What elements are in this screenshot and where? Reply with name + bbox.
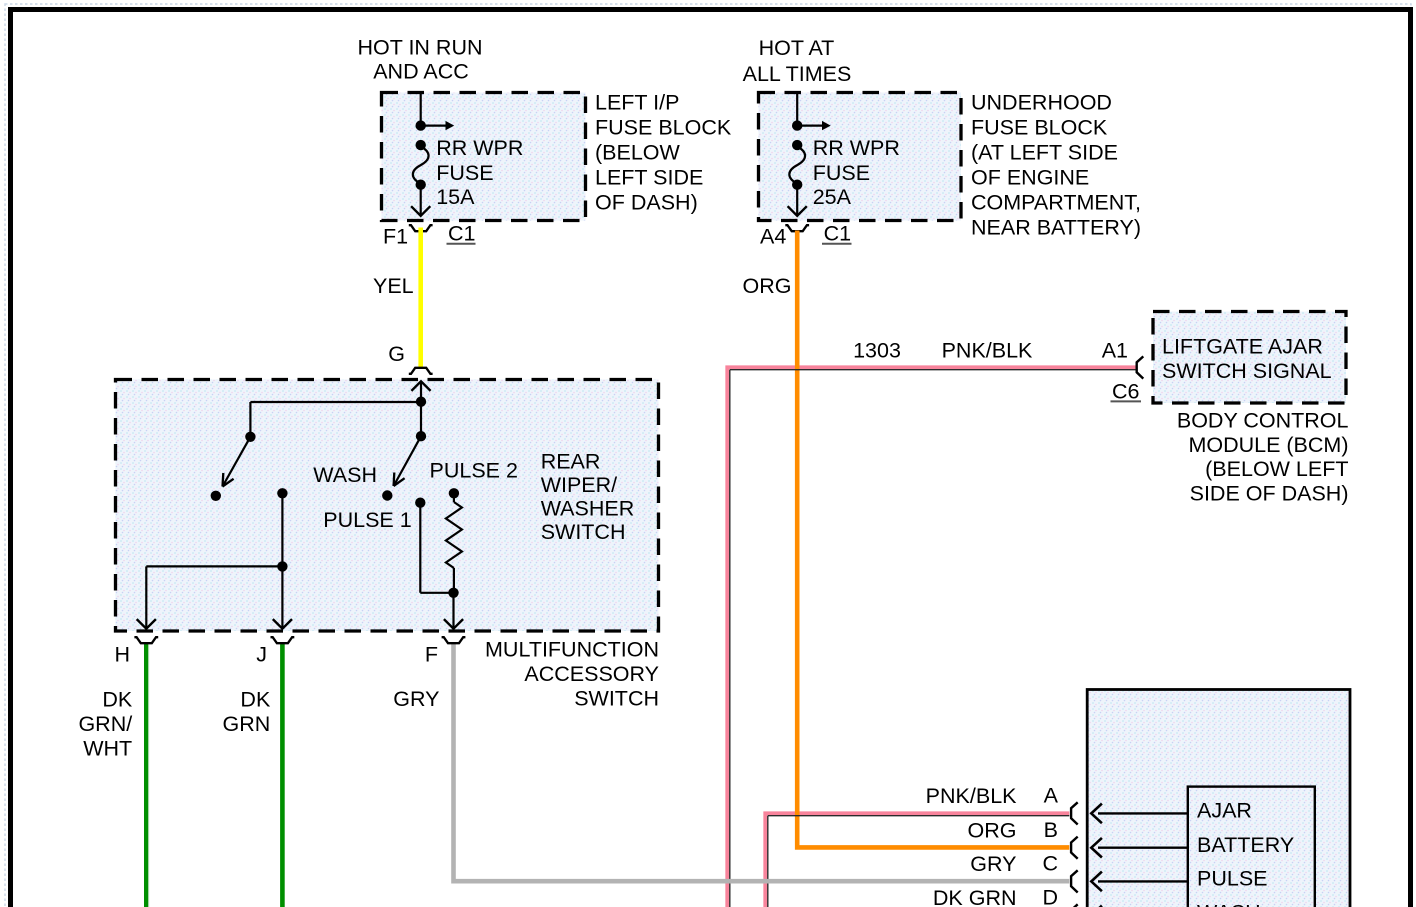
svg-text:FUSE BLOCK: FUSE BLOCK <box>971 116 1108 140</box>
svg-text:GRN: GRN <box>223 712 271 736</box>
svg-text:SWITCH: SWITCH <box>541 520 626 544</box>
svg-text:(AT LEFT SIDE: (AT LEFT SIDE <box>971 141 1118 165</box>
module input arrow WASH <box>1091 906 1188 907</box>
pin H label <box>114 643 130 667</box>
wire PNK/BLK pin A - black stripe <box>768 816 1070 907</box>
pin G label <box>388 342 405 366</box>
svg-text:SIDE OF DASH): SIDE OF DASH) <box>1190 481 1349 505</box>
svg-text:SWITCH: SWITCH <box>574 687 659 711</box>
fuse A4 RR WPR 25A symbol <box>788 94 831 216</box>
wire label GRY <box>393 687 439 711</box>
svg-text:ORG: ORG <box>968 818 1017 842</box>
label PULSE 1 <box>323 508 411 532</box>
svg-text:FUSE: FUSE <box>436 161 493 185</box>
wire PNK/BLK circuit 1303 (BCM A1 down) - pink band <box>727 367 1135 907</box>
rear wiper/washer switch box <box>116 380 659 632</box>
svg-text:GRY: GRY <box>393 687 439 711</box>
svg-text:GRY: GRY <box>970 852 1016 876</box>
svg-text:AJAR: AJAR <box>1197 799 1252 823</box>
svg-text:1303: 1303 <box>853 339 901 363</box>
connector C6 label <box>1111 380 1142 404</box>
label BODY CONTROL MODULE (BCM) (BELOW LEFT SIDE OF DASH) <box>1177 409 1349 506</box>
connector cup at switch pin F <box>442 637 466 643</box>
left switch arm (off position) <box>223 432 256 487</box>
svg-text:YEL: YEL <box>373 274 414 298</box>
wire DK GRN/WHT (switch pin H down) <box>146 644 149 907</box>
wire label 1303 <box>853 339 901 363</box>
svg-text:WASH: WASH <box>313 463 377 487</box>
svg-text:OF DASH): OF DASH) <box>595 191 698 215</box>
svg-text:C1: C1 <box>824 222 851 246</box>
module input arrow BATTERY <box>1091 838 1188 858</box>
wire label ORG <box>743 274 792 298</box>
wire junction to pin H <box>137 566 283 628</box>
svg-text:DK GRN: DK GRN <box>933 886 1017 907</box>
connector cup at switch pin J <box>271 637 295 643</box>
svg-text:ORG: ORG <box>743 274 792 298</box>
wire contact to junction <box>281 493 283 566</box>
wire label ORG at pin B <box>968 818 1017 842</box>
contact WASH <box>382 490 392 500</box>
wash switch arm <box>394 436 421 486</box>
svg-text:H: H <box>114 643 130 667</box>
wire PNK/BLK (module pin A down) - pink band <box>765 813 1069 907</box>
pin A4 label <box>760 225 786 249</box>
value label RR WPR FUSE 25A <box>813 136 900 209</box>
wire label DK GRN at pin D <box>933 886 1017 907</box>
svg-text:ACCESSORY: ACCESSORY <box>524 662 659 686</box>
switch feed wire from pin G with up arrow <box>411 381 430 436</box>
svg-text:B: B <box>1044 818 1058 842</box>
label WASH <box>313 463 377 487</box>
svg-text:WASH: WASH <box>1197 901 1261 907</box>
underhood fuse block box <box>759 93 962 221</box>
svg-text:WIPER/: WIPER/ <box>541 473 617 497</box>
svg-text:HOT AT: HOT AT <box>759 36 835 60</box>
svg-text:REAR: REAR <box>541 450 601 474</box>
pin B label <box>1044 818 1058 842</box>
left switch contact <box>211 491 221 501</box>
svg-text:PNK/BLK: PNK/BLK <box>926 784 1017 808</box>
function label WASH <box>1197 901 1261 907</box>
svg-text:COMPARTMENT,: COMPARTMENT, <box>971 191 1141 215</box>
svg-text:NEAR BATTERY): NEAR BATTERY) <box>971 216 1141 240</box>
connector bracket at module pin D <box>1071 904 1078 907</box>
wire PULSE 1 contact to junction <box>420 503 453 593</box>
pin A1 label <box>1102 339 1128 363</box>
value label RR WPR FUSE 15A <box>436 136 523 209</box>
wire junction to left switch pivot <box>250 402 421 437</box>
svg-text:PULSE: PULSE <box>1197 867 1268 891</box>
connector bracket at module pin A <box>1071 802 1078 824</box>
wire junction to pin J <box>273 566 292 628</box>
svg-text:25A: 25A <box>813 185 852 209</box>
wire PNK/BLK circuit 1303 - black stripe <box>730 370 1136 907</box>
svg-text:FUSE: FUSE <box>813 161 870 185</box>
wire label GRY at pin C <box>970 852 1016 876</box>
svg-text:OF ENGINE: OF ENGINE <box>971 166 1089 190</box>
svg-text:(BELOW: (BELOW <box>595 141 681 165</box>
left I/P fuse block box <box>382 93 586 221</box>
module function box <box>1188 787 1315 907</box>
svg-text:PNK/BLK: PNK/BLK <box>942 339 1033 363</box>
wire label YEL <box>373 274 414 298</box>
feed label HOT IN RUN AND ACC <box>357 36 482 84</box>
svg-text:C: C <box>1042 852 1058 876</box>
svg-text:PULSE 1: PULSE 1 <box>323 508 411 532</box>
svg-text:RR WPR: RR WPR <box>813 136 900 160</box>
svg-text:C6: C6 <box>1112 380 1140 404</box>
label REAR WIPER/WASHER SWITCH <box>541 450 635 545</box>
wire label PNK/BLK (top) <box>942 339 1033 363</box>
svg-text:DK: DK <box>102 688 133 712</box>
resistor (pulse delay) <box>446 493 462 593</box>
function label BATTERY <box>1197 833 1294 857</box>
svg-text:A: A <box>1044 784 1059 808</box>
svg-text:A1: A1 <box>1102 339 1128 363</box>
label UNDERHOOD FUSE BLOCK (AT LEFT SIDE OF ENGINE COMPARTMENT, NEAR BATTERY) <box>971 91 1141 240</box>
module input arrow AJAR <box>1091 804 1188 824</box>
svg-text:15A: 15A <box>436 185 475 209</box>
junction node above pins H/J <box>277 561 287 571</box>
svg-text:RR WPR: RR WPR <box>436 136 523 160</box>
feed label HOT AT ALL TIMES <box>743 36 852 86</box>
rear wiper motor module box <box>1087 690 1350 907</box>
contact PULSE 1 <box>415 498 425 508</box>
svg-text:G: G <box>388 342 405 366</box>
contact to pin J <box>277 488 287 498</box>
svg-text:D: D <box>1042 886 1058 907</box>
function label PULSE <box>1197 867 1268 891</box>
module input arrow PULSE <box>1091 872 1188 892</box>
wire label DK GRN <box>223 688 271 737</box>
svg-text:J: J <box>256 643 267 667</box>
BCM liftgate ajar switch signal box <box>1153 312 1346 404</box>
wash switch arm pivot <box>416 431 426 441</box>
connector bracket at module pin B <box>1071 837 1078 859</box>
pin C label <box>1042 852 1058 876</box>
connector bracket at BCM pin A1 <box>1137 356 1144 378</box>
function label AJAR <box>1197 799 1252 823</box>
svg-text:F: F <box>425 643 438 667</box>
wire YEL (fuse F1 to switch pin G) <box>418 228 423 368</box>
connector C1 label (left) <box>447 222 476 246</box>
svg-text:ALL TIMES: ALL TIMES <box>743 62 852 86</box>
pin J label <box>256 643 267 667</box>
svg-text:BODY CONTROL: BODY CONTROL <box>1177 409 1349 433</box>
wire ORG (fuse A4 to module pin B) <box>797 231 1069 848</box>
pin A label <box>1044 784 1059 808</box>
svg-text:GRN/: GRN/ <box>78 712 132 736</box>
svg-text:AND ACC: AND ACC <box>373 60 469 84</box>
label PULSE 2 <box>430 459 518 483</box>
svg-text:FUSE BLOCK: FUSE BLOCK <box>595 116 732 140</box>
connector cup at switch pin H <box>134 637 158 643</box>
svg-text:A4: A4 <box>760 225 786 249</box>
connector bracket at module pin C <box>1071 870 1078 892</box>
svg-text:DK: DK <box>240 688 271 712</box>
wire DK GRN (switch pin J down) <box>280 644 285 907</box>
label LIFTGATE AJAR SWITCH SIGNAL <box>1162 335 1332 384</box>
svg-text:(BELOW LEFT: (BELOW LEFT <box>1205 457 1348 481</box>
svg-text:LIFTGATE AJAR: LIFTGATE AJAR <box>1162 335 1323 359</box>
svg-text:LEFT SIDE: LEFT SIDE <box>595 166 703 190</box>
pin F1 label <box>383 225 408 249</box>
wire GRY (switch pin F to module pin C) <box>454 644 1070 881</box>
junction node above pin F <box>448 588 458 598</box>
svg-text:F1: F1 <box>383 225 408 249</box>
svg-text:UNDERHOOD: UNDERHOOD <box>971 91 1112 115</box>
fuse F1 RR WPR 15A symbol <box>411 94 454 216</box>
wire junction to pin F <box>444 593 463 629</box>
pin F label <box>425 643 438 667</box>
pin D label <box>1042 886 1058 907</box>
label LEFT I/P FUSE BLOCK (BELOW LEFT SIDE OF DASH) <box>595 91 732 215</box>
junction node below pin G <box>416 397 426 407</box>
svg-text:PULSE 2: PULSE 2 <box>430 459 518 483</box>
svg-text:MODULE (BCM): MODULE (BCM) <box>1188 433 1348 457</box>
svg-text:SWITCH SIGNAL: SWITCH SIGNAL <box>1162 359 1332 383</box>
svg-text:LEFT I/P: LEFT I/P <box>595 91 679 115</box>
connector cup below underhood fuse block <box>785 225 809 231</box>
svg-text:C1: C1 <box>448 222 475 246</box>
connector cap at switch pin G <box>409 368 433 374</box>
svg-text:HOT IN RUN: HOT IN RUN <box>357 36 482 60</box>
contact PULSE 2 <box>449 488 459 498</box>
svg-text:BATTERY: BATTERY <box>1197 833 1294 857</box>
svg-text:MULTIFUNCTION: MULTIFUNCTION <box>485 638 659 662</box>
wire label DK GRN/WHT <box>78 688 132 761</box>
wire label PNK/BLK at pin A <box>926 784 1017 808</box>
label MULTIFUNCTION ACCESSORY SWITCH <box>485 638 659 711</box>
connector C1 label (right) <box>822 222 852 246</box>
svg-text:WASHER: WASHER <box>541 497 635 521</box>
svg-text:WHT: WHT <box>83 737 132 761</box>
connector cup below left fuse block <box>409 225 433 231</box>
